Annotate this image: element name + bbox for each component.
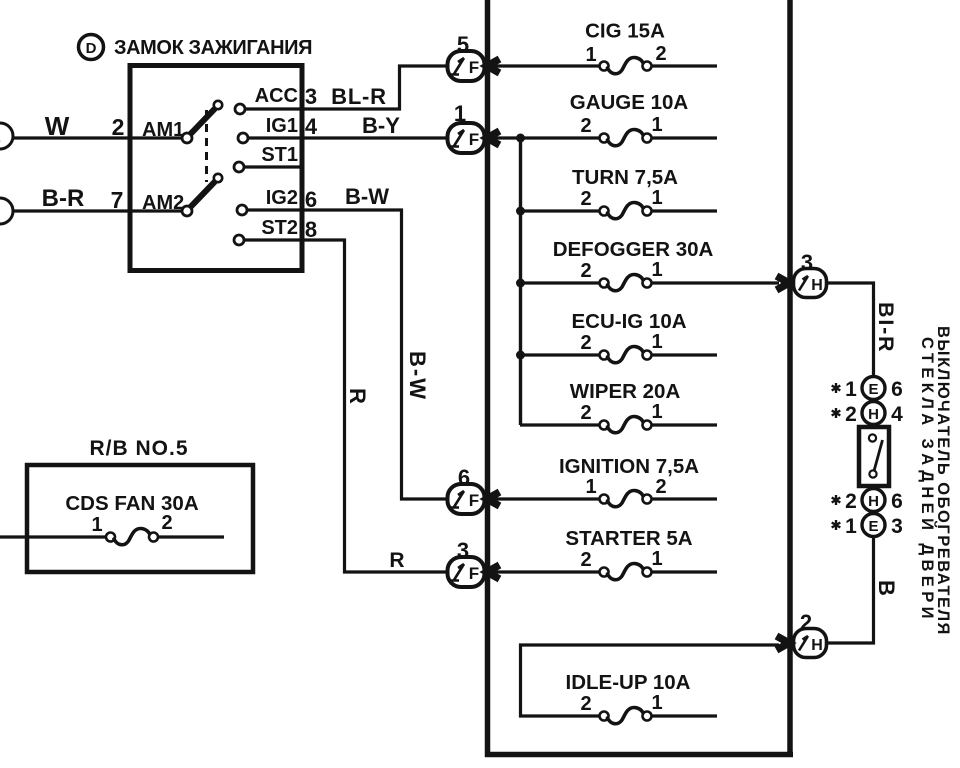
connector H pin 4 <box>862 402 885 425</box>
svg-text:3: 3 <box>305 84 317 109</box>
contact IG2 <box>237 205 300 215</box>
label ECU-IG 10A <box>571 310 686 333</box>
svg-text:1: 1 <box>651 187 662 209</box>
svg-text:1: 1 <box>845 378 857 401</box>
label DEFOGGER 30A <box>553 238 714 261</box>
pin 3 of lower E <box>891 515 903 538</box>
svg-text:IDLE-UP 10A: IDLE-UP 10A <box>566 671 691 694</box>
label IG1 <box>266 115 298 137</box>
label R/B NO.5 <box>89 437 188 460</box>
svg-text:AM2: AM2 <box>142 192 184 214</box>
connector E (left edge, cut) <box>0 123 13 149</box>
wire BI-R: 1H/3 to defogger switch <box>827 283 874 377</box>
svg-text:2: 2 <box>580 260 591 282</box>
label B <box>874 580 899 596</box>
svg-text:F: F <box>0 204 1 220</box>
defogger switch contacts <box>869 434 883 477</box>
svg-text:IGNITION 7,5A: IGNITION 7,5A <box>559 455 699 478</box>
svg-text:AM1: AM1 <box>142 119 184 141</box>
svg-text:CDS FAN 30A: CDS FAN 30A <box>65 492 198 515</box>
contact ST2 <box>234 235 300 245</box>
contact IG1 <box>238 133 300 143</box>
arrow into right bus at IDLE-UP feed row <box>777 636 795 650</box>
svg-text:IG2: IG2 <box>266 187 298 209</box>
switch wiper AM1 <box>190 101 222 135</box>
wire: relay block bus (right vertical) <box>787 0 793 757</box>
svg-text:H: H <box>811 277 823 294</box>
label TURN 7,5A <box>572 166 678 189</box>
svg-text:1: 1 <box>585 44 596 66</box>
label CDS FAN 30A <box>65 492 198 515</box>
svg-text:1: 1 <box>651 401 662 423</box>
pin 6 of lower H <box>891 490 903 513</box>
svg-text:2: 2 <box>580 115 591 137</box>
wire R: ST2 to junction 1F pin3 <box>302 240 448 572</box>
junction dot DEFOGGER row <box>516 279 525 288</box>
fuse TURN: pins 2,1 <box>520 187 717 219</box>
junction connector 1F pin 3 (STARTER) <box>448 538 485 587</box>
svg-text:2: 2 <box>845 403 857 426</box>
svg-text:1: 1 <box>651 548 662 570</box>
svg-text:2: 2 <box>845 490 857 513</box>
wire: junction connector bus (left vertical) <box>485 0 491 757</box>
svg-text:2: 2 <box>580 332 591 354</box>
svg-text:F: F <box>469 564 479 583</box>
switch wiper AM2 <box>190 174 222 208</box>
svg-text:F: F <box>469 130 479 149</box>
svg-text:R: R <box>345 388 370 404</box>
pin 6 of top E <box>891 378 903 401</box>
fuse IGNITION: pins 1,2 <box>489 476 717 507</box>
svg-text:2: 2 <box>161 512 172 534</box>
svg-text:E: E <box>868 518 878 535</box>
junction connector 1F pin 5 (CIG) <box>448 32 485 81</box>
svg-text:2: 2 <box>112 114 125 140</box>
wire BL-R: ACC to junction 1F pin5 <box>302 66 448 109</box>
arrow into bus at GAUGE row <box>482 131 500 145</box>
wire: bottom connecting segment <box>485 752 793 758</box>
svg-text:4: 4 <box>891 403 903 426</box>
arrow into bus at IGNITION row <box>482 492 500 506</box>
junction connector 1H pin 3 <box>794 250 827 298</box>
label ACC <box>255 85 298 107</box>
svg-text:8: 8 <box>305 217 317 242</box>
svg-text:B-W: B-W <box>405 351 430 401</box>
svg-text:2: 2 <box>655 476 666 498</box>
wire W to AM1 <box>13 136 188 139</box>
svg-text:1: 1 <box>651 259 662 281</box>
svg-text:E: E <box>868 381 878 398</box>
switch contact AM1 <box>182 133 192 143</box>
label CIG 15A <box>585 20 665 43</box>
junction connector 1F pin 6 (IGNITION) <box>448 465 485 514</box>
svg-text:7: 7 <box>111 187 124 213</box>
junction connector 1H pin 2 <box>794 610 827 658</box>
label WIPER 20A <box>570 380 681 403</box>
svg-text:1: 1 <box>91 514 102 536</box>
label STARTER 5A <box>565 527 692 550</box>
svg-text:2: 2 <box>580 693 591 715</box>
label B-R <box>42 185 85 212</box>
svg-text:1: 1 <box>651 331 662 353</box>
fuse CDS FAN: pins 1,2 <box>0 512 224 545</box>
switch contact AM2 <box>182 206 192 216</box>
contact ACC <box>235 104 300 114</box>
svg-text:СТЕКЛА ЗАДНЕЙ ДВЕРИ: СТЕКЛА ЗАДНЕЙ ДВЕРИ <box>918 337 937 623</box>
pin 8 of ST2 <box>305 217 317 242</box>
label R horizontal <box>389 549 404 572</box>
label B-Y <box>362 113 400 138</box>
fuse CIG: pins 1,2 <box>489 43 717 74</box>
wire B-Y: IG1 to junction 1F pin1 <box>302 136 448 139</box>
svg-text:1: 1 <box>651 114 662 136</box>
junction dot GAUGE row <box>516 134 525 143</box>
svg-text:3: 3 <box>891 515 903 538</box>
label R vertical <box>345 388 370 404</box>
svg-text:ST2: ST2 <box>261 217 298 239</box>
label IGNITION 7,5A <box>559 455 699 478</box>
wire B-W: IG2 to junction 1F pin6 <box>302 210 448 499</box>
junction connector 1F pin 1 (GAUGE) <box>448 101 485 153</box>
defogger switch box <box>859 427 889 486</box>
relay block no.5 box <box>27 465 253 572</box>
svg-text:1: 1 <box>585 476 596 498</box>
ignition switch box <box>130 66 302 271</box>
svg-text:1: 1 <box>651 692 662 714</box>
label AM1 <box>142 119 184 141</box>
svg-text:DEFOGGER 30A: DEFOGGER 30A <box>553 238 714 261</box>
label *2 (lower H) <box>832 490 857 513</box>
fuse ECU-IG: pins 2,1 <box>520 331 717 363</box>
svg-text:2: 2 <box>655 43 666 65</box>
svg-text:W: W <box>45 111 70 141</box>
arrow into bus at STARTER row <box>482 565 500 579</box>
svg-text:B-W: B-W <box>345 184 389 209</box>
svg-text:2: 2 <box>580 188 591 210</box>
svg-text:WIPER 20A: WIPER 20A <box>570 380 681 403</box>
label *2 (top H) <box>832 403 857 426</box>
label: ignition lock title <box>114 37 312 59</box>
connector F (left edge, cut) <box>0 198 13 224</box>
svg-text:H: H <box>868 493 879 510</box>
svg-text:H: H <box>868 406 879 423</box>
pin 4 of top H <box>891 403 903 426</box>
label: rear door glass heater switch (vertical, line 1) <box>934 326 952 636</box>
label GAUGE 10A <box>570 91 689 114</box>
svg-text:ЗАМОК ЗАЖИГАНИЯ: ЗАМОК ЗАЖИГАНИЯ <box>114 37 312 59</box>
pin 4 of IG1 <box>305 114 318 139</box>
label ST1 <box>261 144 298 166</box>
label IG2 <box>266 187 298 209</box>
wire branch bus (GAUGE feed) <box>519 138 522 425</box>
svg-text:6: 6 <box>891 378 903 401</box>
label: rear door glass heater switch (vertical, line 2) <box>918 337 937 623</box>
junction dot TURN row <box>516 207 525 216</box>
svg-text:CIG 15A: CIG 15A <box>585 20 665 43</box>
svg-text:F: F <box>469 58 479 77</box>
label B-W vertical <box>405 351 430 401</box>
fuse IDLE-UP: pins 2,1 <box>580 692 717 724</box>
svg-text:BI-R: BI-R <box>874 302 898 353</box>
pin 6 of IG2 <box>305 187 317 212</box>
svg-text:IG1: IG1 <box>266 115 298 137</box>
svg-text:ECU-IG 10A: ECU-IG 10A <box>571 310 686 333</box>
pin 3 of ACC <box>305 84 317 109</box>
svg-text:R: R <box>389 549 404 572</box>
svg-text:F: F <box>469 491 479 510</box>
wire B: switch to 1H/2 <box>828 536 874 643</box>
svg-text:6: 6 <box>891 490 903 513</box>
connector H pin 6 (lower) <box>862 489 885 512</box>
label ST2 <box>261 217 298 239</box>
label B-W horizontal <box>345 184 389 209</box>
svg-text:B: B <box>874 580 899 596</box>
svg-text:1: 1 <box>845 515 857 538</box>
connector D symbol <box>79 35 104 60</box>
svg-text:B-Y: B-Y <box>362 113 400 138</box>
label BL-R <box>331 84 387 109</box>
fuse WIPER: pins 2,1 <box>520 401 717 433</box>
svg-text:ACC: ACC <box>255 85 298 107</box>
fuse GAUGE: pins 2,1 <box>489 114 717 146</box>
svg-text:E: E <box>0 129 1 145</box>
arrow into bus at CIG row <box>482 59 500 73</box>
connector E pin 3 (lower) <box>862 514 885 537</box>
wire B-R to AM2 <box>13 209 188 212</box>
svg-text:STARTER 5A: STARTER 5A <box>565 527 692 550</box>
wire IDLE-UP feed loop <box>521 645 780 716</box>
fuse STARTER: pins 2,1 <box>489 548 717 580</box>
svg-text:BL-R: BL-R <box>331 84 387 109</box>
junction dot ECU-IG row <box>516 351 525 360</box>
svg-text:2: 2 <box>580 402 591 424</box>
label W <box>45 111 70 141</box>
label BI-R <box>874 302 898 353</box>
connector E pin 6 (top) <box>862 377 885 400</box>
svg-text:D: D <box>86 40 97 57</box>
svg-text:B-R: B-R <box>42 185 85 212</box>
svg-text:H: H <box>811 637 823 654</box>
label *1 (lower E) <box>832 515 857 538</box>
svg-text:6: 6 <box>305 187 317 212</box>
arrow into right bus at DEFOGGER row <box>777 276 795 290</box>
label AM2 <box>142 192 184 214</box>
label *1 (top E) <box>832 378 857 401</box>
svg-text:2: 2 <box>580 549 591 571</box>
svg-text:ST1: ST1 <box>261 144 298 166</box>
svg-text:4: 4 <box>305 114 318 139</box>
dashed link between wipers <box>205 110 208 182</box>
svg-text:R/B NO.5: R/B NO.5 <box>89 437 188 460</box>
fuse DEFOGGER: pins 2,1 <box>520 259 779 291</box>
pin 2 of AM1 <box>112 114 125 140</box>
svg-text:TURN 7,5A: TURN 7,5A <box>572 166 678 189</box>
contact ST1 <box>234 162 300 172</box>
svg-text:GAUGE 10A: GAUGE 10A <box>570 91 689 114</box>
pin 7 of AM2 <box>111 187 124 213</box>
label IDLE-UP 10A <box>566 671 691 694</box>
